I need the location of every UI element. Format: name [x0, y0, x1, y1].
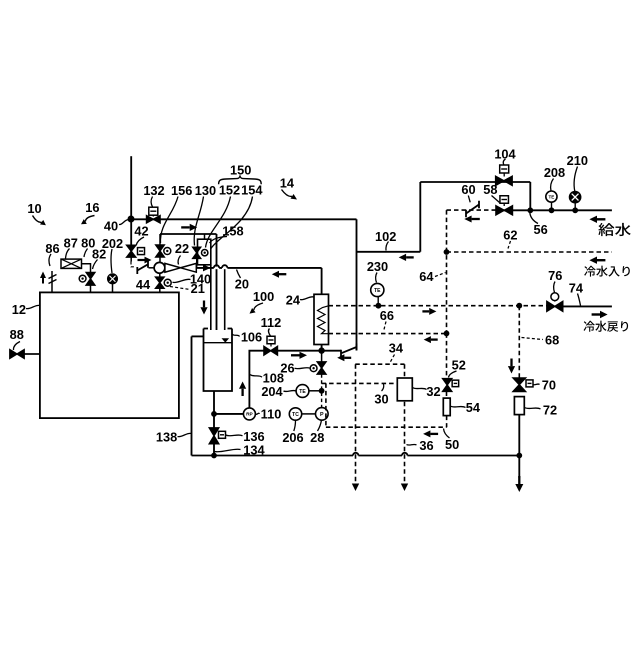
- valve 112: [264, 346, 278, 355]
- svg-text:230: 230: [367, 259, 388, 274]
- pointer 42: [136, 237, 144, 246]
- svg-text:86: 86: [45, 241, 59, 256]
- svg-text:74: 74: [569, 280, 584, 295]
- pointer 22: [178, 256, 180, 265]
- svg-text:58: 58: [483, 182, 497, 197]
- pointer 60: [468, 196, 470, 203]
- svg-text:42: 42: [134, 224, 148, 239]
- node junction sensor 210 tap: [572, 207, 578, 213]
- wire: 72 to blowdown: [518, 415, 520, 478]
- wire: loop line valve112 to check142: [277, 350, 341, 352]
- label 冷水戻り (chilled water return): [584, 321, 595, 332]
- svg-text:26: 26: [280, 360, 294, 375]
- svg-text:154: 154: [241, 182, 263, 197]
- svg-text:88: 88: [10, 327, 24, 342]
- pointer 30 dashed: [382, 384, 384, 391]
- svg-text:TC: TC: [292, 412, 299, 418]
- valve 104 stem: [503, 173, 505, 177]
- pointer 87: [66, 249, 70, 259]
- pointer 106: [232, 334, 239, 337]
- svg-text:34: 34: [389, 341, 404, 356]
- pointer 158: [210, 237, 228, 244]
- wire: bypass 104 drop to feed line: [529, 182, 531, 210]
- pipe 62 dashed from check 60: [447, 209, 496, 211]
- wire: valve 156 stem upper: [159, 234, 161, 245]
- valve 132 motor box: [149, 207, 158, 215]
- svg-text:156: 156: [171, 183, 192, 198]
- wire: 202 stem: [112, 284, 114, 293]
- svg-text:64: 64: [419, 269, 434, 284]
- svg-text:204: 204: [261, 384, 283, 399]
- svg-text:112: 112: [261, 315, 282, 330]
- flow arrow right on return 66: [422, 310, 429, 312]
- pointer 62 dashed: [508, 241, 511, 249]
- wire: valve 130 lower stem: [196, 258, 198, 268]
- wire: valve 80 stem to tank: [90, 285, 92, 292]
- svg-text:56: 56: [533, 222, 547, 237]
- wire: return line out (冷水戻り): [563, 305, 612, 307]
- flow arrow into pump via 44: [138, 259, 145, 261]
- wire: header y234 over pump cluster: [160, 233, 217, 235]
- pointer 132: [151, 197, 153, 208]
- wire: overflow 138 drop: [191, 336, 193, 455]
- pointer 66 dashed: [384, 322, 387, 332]
- pipe 68 dashed drop: [518, 306, 520, 378]
- pipe chilled water in (冷水入り): [447, 251, 612, 253]
- three-way valve 22 body: [165, 263, 196, 272]
- node junction TE208 tap: [549, 207, 555, 213]
- svg-text:210: 210: [567, 153, 588, 168]
- vent 86 pipe: [51, 271, 53, 292]
- svg-text:110: 110: [261, 406, 282, 421]
- svg-text:100: 100: [253, 289, 274, 304]
- pointer 110: [256, 413, 260, 414]
- svg-text:62: 62: [503, 227, 517, 242]
- valve 76: [547, 301, 563, 311]
- svg-text:22: 22: [175, 241, 189, 256]
- valve 156: [156, 245, 165, 257]
- svg-text:30: 30: [374, 392, 388, 407]
- pointer 112: [268, 329, 270, 337]
- signal dashed to device 32: [322, 382, 398, 384]
- wire: valve 140 to tank 12 top: [159, 288, 161, 293]
- controller TC 206: [289, 408, 301, 420]
- svg-text:TE: TE: [548, 194, 554, 199]
- pipe 50 dashed corner drop: [325, 383, 327, 427]
- box 30 dashed top: [355, 363, 404, 365]
- pipe 66 supply dashed: [329, 333, 447, 335]
- pointer 28: [318, 420, 322, 431]
- valve 42: [127, 245, 136, 257]
- pointer 138: [178, 433, 192, 436]
- wire: valve 42 branch from node 40: [130, 219, 132, 246]
- wire: 87 to valve 80: [82, 264, 91, 273]
- wire: valve 88 to tank 12: [24, 353, 40, 355]
- pointer 152: [206, 197, 231, 248]
- tank 106 level mark: [222, 338, 230, 342]
- svg-text:104: 104: [494, 147, 516, 162]
- pointer 108: [250, 375, 262, 378]
- wire: TE230 stem: [377, 297, 379, 306]
- pointer 72: [525, 408, 541, 410]
- wire: drop leg x216.5 to tank 106: [216, 234, 218, 330]
- pointer 102: [386, 242, 389, 251]
- pointer 26: [295, 368, 311, 369]
- wire: pipe 102 vertical x420: [419, 182, 421, 252]
- valve 132 stem: [152, 215, 154, 217]
- flow arrow into main line: [203, 264, 211, 271]
- flow arrow left under pipe 102: [406, 256, 414, 258]
- box 30 left leg dashed: [355, 364, 357, 482]
- node valve26 sense junction: [319, 388, 325, 394]
- sensor TE 230: [371, 283, 384, 296]
- tank 106 water level line: [204, 342, 233, 344]
- wire: tank106 outlet to pump RP: [214, 413, 243, 415]
- svg-text:152: 152: [219, 182, 240, 197]
- wire: riser from node A up: [130, 156, 132, 219]
- svg-text:158: 158: [222, 224, 243, 239]
- svg-text:208: 208: [544, 165, 565, 180]
- pipe 54 stem dashed upper: [446, 392, 448, 399]
- pointer 140: [173, 279, 191, 282]
- flow arrow left under check 142: [344, 357, 351, 359]
- svg-text:16: 16: [85, 200, 99, 215]
- pointer 64 dashed: [435, 273, 446, 277]
- device 32: [397, 378, 412, 401]
- node 66 to valve52 junction: [444, 331, 450, 337]
- svg-text:14: 14: [280, 176, 295, 191]
- valve 104: [496, 176, 513, 185]
- hop crossing box30 left leg: [353, 454, 358, 457]
- wire: bypass 104 horizontal y182: [420, 181, 530, 183]
- node bottom right junction: [516, 453, 522, 459]
- pointer 130: [194, 197, 203, 246]
- valve 80: [86, 272, 95, 285]
- check valve 44: [137, 261, 148, 274]
- svg-text:50: 50: [445, 437, 459, 452]
- restrictor 72: [514, 397, 524, 415]
- pointer 202: [111, 249, 112, 273]
- pointer 82: [93, 260, 98, 270]
- check valve 60: [466, 201, 479, 218]
- valve 136 actuator box: [219, 431, 226, 438]
- flow arrow left under check 60: [472, 218, 480, 220]
- zigzag arrow 14: [282, 190, 293, 197]
- wire: blowdown line 134: [192, 455, 520, 457]
- pointer 206: [294, 421, 296, 432]
- svg-text:132: 132: [143, 183, 164, 198]
- wire: sensor 210 stem: [574, 202, 576, 210]
- hop crossing box30 right leg: [402, 454, 407, 457]
- valve 104 motor box: [500, 165, 509, 173]
- svg-text:76: 76: [548, 268, 562, 283]
- flow arrow chilled return out: [592, 313, 600, 315]
- valve 52: [443, 379, 452, 392]
- box 158 enclosure: [198, 239, 211, 265]
- flow arrow down to valve 70: [510, 359, 512, 367]
- svg-text:TE: TE: [299, 389, 306, 395]
- svg-text:134: 134: [243, 443, 265, 458]
- svg-text:60: 60: [461, 182, 475, 197]
- pointer 36: [407, 443, 417, 446]
- wire: TC206 to P28: [302, 413, 317, 415]
- arrow dashed end right: [401, 484, 408, 492]
- zigzag arrow 100: [254, 303, 263, 310]
- pipe 50 dashed: [326, 426, 447, 428]
- svg-text:52: 52: [452, 358, 466, 373]
- wire: pipe 102 jog horizontal y252: [357, 251, 421, 253]
- pointer 50: [444, 429, 450, 439]
- svg-text:68: 68: [545, 333, 559, 348]
- svg-text:44: 44: [136, 277, 151, 292]
- svg-text:24: 24: [286, 292, 301, 307]
- wire: pipe 102 horizontal from node 40 to x356: [131, 218, 356, 220]
- node exchanger bottom junction: [318, 347, 324, 353]
- svg-text:150: 150: [230, 162, 251, 177]
- sensor TE 208: [546, 191, 557, 202]
- tank 106 top stub right: [228, 328, 233, 330]
- svg-text:10: 10: [27, 201, 41, 216]
- valve 140: [156, 277, 165, 288]
- wire: check 44 to pump 22: [149, 267, 155, 269]
- wire: feed water line (給水): [496, 209, 612, 211]
- pump 22 circle: [154, 262, 165, 273]
- wire: valve 136 to blowdown line 134: [213, 443, 215, 456]
- pointer 20: [237, 270, 241, 279]
- heat exchanger 24 shell: [314, 294, 329, 344]
- pipe 62/64 dashed drop: [446, 210, 448, 333]
- pointer 204: [284, 390, 297, 391]
- solenoid pilot 26: [310, 365, 317, 372]
- pointer 52: [449, 371, 457, 378]
- tank 106 shell: [204, 329, 233, 392]
- svg-text:40: 40: [104, 219, 118, 234]
- valve 52 actuator box: [452, 380, 459, 387]
- pointer 54: [450, 406, 465, 408]
- tank 106 top stub left: [204, 328, 209, 330]
- svg-text:28: 28: [310, 430, 324, 445]
- node 68 branch tap: [516, 303, 522, 309]
- wire: valve 42 tail: [130, 257, 132, 262]
- flow arrow feed water: [597, 218, 605, 220]
- node junction on feed line at x530: [527, 207, 533, 213]
- box 30 right leg dashed: [404, 364, 406, 482]
- wire: pump RP riser x249 (pipe 108): [249, 351, 264, 409]
- valve 42 actuator box: [138, 248, 145, 255]
- svg-text:32: 32: [426, 384, 440, 399]
- flow arrow chilled in: [597, 259, 605, 261]
- flow arrow right after valve 112: [291, 354, 300, 356]
- pointer 86: [49, 254, 51, 266]
- pointer 40: [119, 220, 129, 225]
- valve 112 motor box: [267, 336, 275, 344]
- wire: drop leg from box158 x210.8 to tank 106: [210, 265, 212, 330]
- svg-text:138: 138: [156, 430, 177, 445]
- flow arrow left on line 50: [430, 433, 438, 435]
- exchanger 24 coil: [318, 306, 329, 334]
- solenoid pilot 156: [164, 248, 171, 255]
- pointer 56: [530, 213, 538, 224]
- valve 58: [496, 206, 513, 215]
- zigzag arrow 10: [33, 216, 42, 223]
- pointer 70: [533, 383, 540, 386]
- zigzag arrow 16: [85, 216, 94, 222]
- pointer 68 dashed: [522, 338, 544, 340]
- pointer 104: [503, 159, 505, 165]
- sensor TE 204: [296, 385, 309, 398]
- valve 70: [513, 378, 526, 392]
- pointer 58: [492, 196, 500, 203]
- check valve 142: [341, 344, 357, 357]
- svg-text:54: 54: [466, 400, 481, 415]
- svg-text:82: 82: [92, 247, 106, 262]
- dashed pointer 21 near valve 42: [131, 262, 136, 267]
- vent 86 up arrow: [42, 278, 44, 284]
- pointer 12: [26, 305, 40, 308]
- sensor P 28: [316, 408, 329, 421]
- solenoid pilot 82 on valve 80: [79, 275, 86, 282]
- valve 130: [193, 247, 201, 258]
- pointer 74: [578, 294, 581, 306]
- hop crossing x224.7 on main line: [222, 267, 227, 270]
- brace 150: [219, 176, 262, 184]
- valve 88 drain: [10, 350, 24, 359]
- wire: TE204 tap: [309, 390, 322, 392]
- flow arrow right above cluster: [181, 226, 190, 228]
- pointer 80: [84, 249, 88, 258]
- svg-text:TE: TE: [374, 288, 381, 294]
- valve 136: [209, 428, 219, 444]
- restrictor 54: [443, 398, 450, 416]
- node chilled-in tap: [444, 249, 450, 255]
- pipe to valve 52 dashed: [446, 333, 448, 378]
- valve 26: [317, 362, 326, 374]
- wire: pipe 102 vertical x356 down to check 142: [356, 219, 358, 350]
- pipe 54 stem dashed lower: [446, 416, 448, 428]
- vent 86 break marks: [49, 275, 57, 284]
- svg-text:21: 21: [191, 281, 205, 296]
- wire: valve 140 stem from pump: [159, 273, 161, 279]
- pointer 230: [376, 273, 377, 283]
- pointer 134: [215, 449, 241, 452]
- svg-text:102: 102: [375, 229, 396, 244]
- pointer 34 dashed: [390, 355, 395, 363]
- pointer 208: [551, 179, 554, 191]
- wire: valve 156 to pump 22: [159, 257, 161, 263]
- wire: exchanger 24 top stem: [321, 268, 323, 294]
- pointer 24: [300, 297, 314, 300]
- pipe 66 return dashed: [329, 305, 547, 307]
- pointer 76: [554, 282, 555, 293]
- svg-text:70: 70: [542, 377, 556, 392]
- flow arrow left on line 20: [279, 273, 286, 275]
- flame screen 87: [61, 259, 82, 268]
- wire: main line pump outlet to exchanger 24: [196, 267, 321, 269]
- valve 132: [147, 216, 161, 223]
- wire: stem from header into box 158: [204, 234, 206, 239]
- signal dashed valve26 to P28: [321, 374, 323, 408]
- svg-text:P: P: [320, 412, 324, 418]
- label 冷水入り (chilled water in): [584, 266, 595, 277]
- svg-text:20: 20: [235, 277, 249, 292]
- wire: valve 26 stem: [321, 351, 323, 362]
- svg-text:RP: RP: [246, 412, 253, 418]
- node A (40) junction: [128, 216, 135, 223]
- pointer 136: [226, 434, 243, 437]
- svg-text:72: 72: [543, 402, 557, 417]
- node TE230 tap: [376, 303, 382, 309]
- pointer 156: [160, 197, 178, 244]
- solenoid pilot 140: [164, 279, 171, 286]
- svg-text:87: 87: [64, 236, 78, 251]
- sensor 202: [108, 274, 118, 284]
- valve 70 actuator box: [526, 380, 533, 387]
- valve 58 stem: [503, 203, 505, 206]
- svg-text:106: 106: [241, 330, 262, 345]
- arrow dashed end left: [352, 484, 359, 492]
- svg-text:206: 206: [282, 430, 303, 445]
- node tank outlet junction: [211, 411, 217, 417]
- svg-text:12: 12: [12, 302, 26, 317]
- node blowdown junction: [211, 453, 217, 459]
- hop crossing x216.5 on main line: [214, 267, 219, 270]
- flow arrow down to tank 106: [203, 301, 205, 308]
- tank 12: [40, 292, 179, 418]
- solenoid pilot 130: [202, 250, 208, 256]
- pointer 88: [13, 342, 20, 351]
- pointer 210: [574, 167, 577, 192]
- svg-text:130: 130: [195, 183, 216, 198]
- pointer 32: [413, 388, 427, 390]
- valve 76 pilot circle: [551, 293, 559, 301]
- pointer 154: [211, 197, 253, 249]
- svg-text:66: 66: [380, 308, 394, 323]
- flow arrow left on supply 66: [431, 338, 438, 340]
- wire: TE208 stem: [551, 202, 553, 210]
- label 給水 (feed water): [598, 223, 614, 236]
- dashed pointer 21: [170, 287, 190, 290]
- wire: overflow 138 horiz: [192, 335, 204, 337]
- wire: tank 106 bottom drop: [213, 391, 215, 429]
- valve 58 motor box: [500, 196, 509, 204]
- pump RP 110: [243, 408, 255, 420]
- arrow line end bottom right: [518, 476, 520, 484]
- sensor 210 motor: [570, 192, 581, 203]
- flow arrow up pipe 108: [241, 389, 243, 396]
- wire: drop leg x224.7 to tank 106: [224, 268, 226, 330]
- svg-text:36: 36: [419, 438, 433, 453]
- valve 112 stem: [270, 344, 272, 347]
- wire: exchanger 24 bottom stem: [321, 345, 323, 351]
